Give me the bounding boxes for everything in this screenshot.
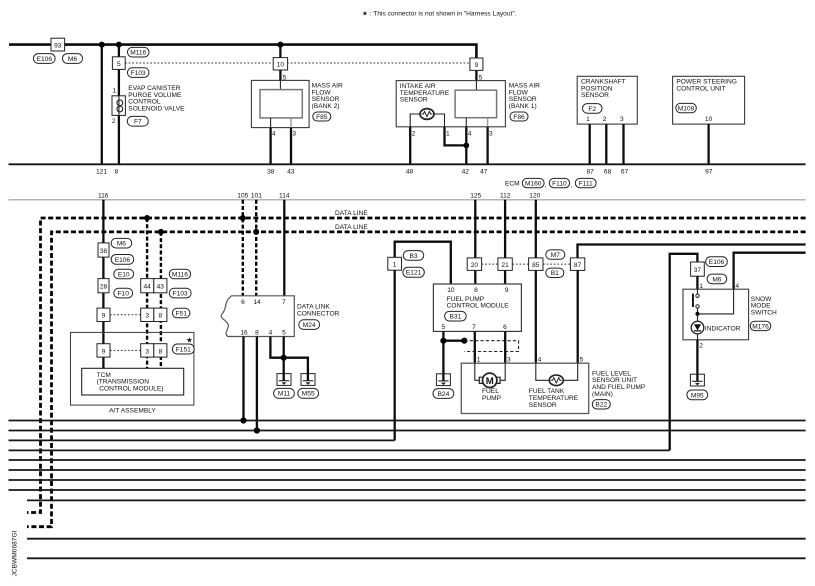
wire: shield drain link xyxy=(443,340,464,342)
mass air flow sensor (bank 2) inner element xyxy=(260,90,302,118)
wire: snow mode switch feed L (vertical to bottom bus) xyxy=(670,254,698,451)
wire: FPCM pin 7 to fuel pump pin 1 xyxy=(474,331,476,363)
svg-text:SOLENOID VALVE: SOLENOID VALVE xyxy=(128,105,185,112)
wire: dotted link 9 to 3 (F151 row) xyxy=(110,349,141,351)
wire: fuel tank temp sensor pin 4 internal xyxy=(536,363,550,380)
wire: connector 37 to snow mode switch pin 1 xyxy=(696,276,698,289)
connector oval M95 xyxy=(687,390,708,400)
connector oval M108 xyxy=(676,103,697,112)
svg-text:M6: M6 xyxy=(68,56,77,63)
svg-text:3: 3 xyxy=(507,356,511,363)
svg-text:JCBWM0687GI: JCBWM0687GI xyxy=(11,530,18,576)
node: shield drain junction left xyxy=(440,338,446,344)
svg-text:4: 4 xyxy=(468,130,472,137)
connector 20 xyxy=(467,258,481,271)
svg-text:116: 116 xyxy=(98,192,109,199)
svg-text:14: 14 xyxy=(253,299,261,306)
switch contact (snow mode switch) xyxy=(692,289,699,314)
svg-text:8: 8 xyxy=(115,169,119,176)
svg-text:9: 9 xyxy=(102,313,106,320)
ground symbol M95 xyxy=(690,374,704,386)
svg-text:112: 112 xyxy=(500,192,511,199)
mass air flow sensor (bank 2) outer box xyxy=(251,80,309,127)
svg-text:M108: M108 xyxy=(678,106,695,113)
power steering control unit box xyxy=(673,76,745,124)
svg-text:B22: B22 xyxy=(595,402,607,409)
svg-text:ECM: ECM xyxy=(505,180,520,187)
svg-text:1: 1 xyxy=(393,262,397,269)
wire: pin5 inside MAF bank1 xyxy=(475,81,477,91)
connector oval E106 xyxy=(34,54,56,64)
TCM (transmission control module) box xyxy=(82,368,184,395)
connector 8 (F51 row) xyxy=(154,308,167,321)
svg-text:10: 10 xyxy=(277,62,285,69)
svg-text:105: 105 xyxy=(237,192,248,199)
wire: ECM 114 to DLC pin 7 xyxy=(283,200,285,296)
svg-text:48: 48 xyxy=(406,169,414,176)
wire: FPCM pin10 to connector B3 (up-left-down) xyxy=(395,242,451,284)
wire: MAF bank2 power drop from bus xyxy=(279,45,281,58)
svg-text:120: 120 xyxy=(529,192,540,199)
indicator LED (snow mode switch) xyxy=(691,321,704,334)
wire: ECM top bus (horizontal) xyxy=(9,163,806,165)
wire: DLC pin 5 down to grounds xyxy=(283,337,285,375)
svg-text:F103: F103 xyxy=(131,70,146,77)
svg-text:9: 9 xyxy=(475,62,479,69)
svg-text:6: 6 xyxy=(503,324,507,331)
svg-text:F111: F111 xyxy=(579,180,593,187)
connector 28 (E10/F10) xyxy=(98,279,109,293)
svg-text:9: 9 xyxy=(505,287,509,294)
svg-text:E106: E106 xyxy=(115,257,131,264)
wire: indicator to pin 2 xyxy=(697,334,699,340)
wire: DLC pin 4 to ground junction xyxy=(270,337,283,358)
svg-text:16: 16 xyxy=(240,330,248,337)
wire: MAF bank1 pin 3 (inside, gray) xyxy=(487,118,489,127)
connector oval M116 (TCM column) xyxy=(169,269,190,279)
label: FUEL TANK TEMPERATURE SENSOR xyxy=(529,388,579,409)
svg-text:8: 8 xyxy=(255,330,259,337)
thermistor: intake air temperature sensing element xyxy=(420,109,434,120)
connector oval B24 xyxy=(433,389,454,399)
wire: snow mode switch pin 4 up and right to page edge xyxy=(734,253,806,290)
svg-text:F2: F2 xyxy=(588,106,596,113)
wire: connector 87 down to fuel level sensor pin 5 xyxy=(577,270,579,363)
node: junction pin1/pin4 xyxy=(463,143,469,149)
connector oval E121 xyxy=(403,267,424,277)
connector 9 (F151 row) xyxy=(97,344,110,357)
svg-text:M116: M116 xyxy=(130,50,146,57)
svg-text:8: 8 xyxy=(158,313,162,320)
svg-text:F103: F103 xyxy=(173,291,188,298)
wire: fuel pump pin 3 internal xyxy=(501,363,505,380)
connector oval E106 (snow switch) xyxy=(706,257,728,267)
svg-text:114: 114 xyxy=(279,192,290,199)
svg-text:85: 85 xyxy=(532,262,540,269)
svg-text:7: 7 xyxy=(282,299,286,306)
wire: EVAP solenoid feed (vertical) xyxy=(118,45,120,165)
connector 85 xyxy=(529,258,543,271)
svg-text:3: 3 xyxy=(292,130,296,137)
node: junction on bus at x=118.9 xyxy=(116,42,122,48)
svg-text:★ : This connector is not show: ★ : This connector is not shown in "Harn… xyxy=(362,10,517,18)
svg-text:M11: M11 xyxy=(278,391,291,398)
wire: ECM 125 to FPCM pin 8 xyxy=(474,200,476,284)
svg-text:DATA LINE: DATA LINE xyxy=(335,224,368,231)
connector oval F103 (TCM column) xyxy=(169,288,191,298)
svg-text:1: 1 xyxy=(446,130,450,137)
connector oval F10 xyxy=(114,288,133,298)
svg-text:2: 2 xyxy=(112,118,116,125)
svg-text:SWITCH: SWITCH xyxy=(751,309,777,316)
svg-text:10: 10 xyxy=(447,287,455,294)
connector 1 (B3/E121) xyxy=(388,257,402,270)
wire: connector 10 to MAF bank2 xyxy=(279,70,281,80)
wire: CKP pin1 to ECM 87 xyxy=(589,124,591,164)
wire: IAT pin 2 to ECM 48 xyxy=(409,127,411,165)
svg-text:38: 38 xyxy=(100,248,108,255)
node: switch/indicator junction xyxy=(695,312,699,316)
svg-text:M116: M116 xyxy=(172,271,188,278)
svg-text:10: 10 xyxy=(705,116,713,123)
svg-text:SENSOR: SENSOR xyxy=(581,92,609,99)
svg-text:,: , xyxy=(570,182,572,189)
wire: CKP pin3 to ECM 67 xyxy=(622,124,624,164)
svg-text:2: 2 xyxy=(699,343,703,350)
wire: bottom bus 3 (ends at B3 drop) xyxy=(9,439,395,441)
wire: bottom bus 8 xyxy=(9,489,806,491)
connector 5 (M116/F103) xyxy=(112,57,125,70)
svg-text:B3: B3 xyxy=(409,253,417,260)
wire: MAF bank2 pin 4 to ECM 38 xyxy=(269,128,271,165)
node labels: ECM pin numbers row 1 xyxy=(96,169,713,176)
node: junction on bus at x=101.8 xyxy=(99,42,105,48)
svg-text:F85: F85 xyxy=(316,114,328,121)
svg-text:F51: F51 xyxy=(176,310,188,317)
wire: MAF bank2 pin 3 to ECM 43 xyxy=(290,128,292,165)
svg-text:F86: F86 xyxy=(513,114,525,121)
node: shield drain junction right xyxy=(461,338,467,344)
svg-text:6: 6 xyxy=(241,299,245,306)
connector oval B3 xyxy=(403,251,423,261)
connector 21 xyxy=(498,258,512,271)
svg-text:8: 8 xyxy=(158,348,162,355)
svg-text:8: 8 xyxy=(474,287,478,294)
connector oval M7 xyxy=(546,250,565,259)
connector oval F151 xyxy=(172,344,194,354)
svg-text:3: 3 xyxy=(145,313,149,320)
svg-text:121: 121 xyxy=(96,169,107,176)
connector 10 xyxy=(273,58,287,70)
thermistor: fuel tank temperature sensor xyxy=(549,375,563,386)
connector 8 (F151 row) xyxy=(154,344,167,357)
wire: MAF bank2 pin 4 (inside) xyxy=(270,118,272,128)
svg-text:CONNECTOR: CONNECTOR xyxy=(297,310,340,317)
wire: FPCM pin 6 to fuel pump pin 3 xyxy=(504,331,506,363)
connector oval F51 xyxy=(172,308,190,318)
node: junction DATA LINE 1 / DLC xyxy=(240,215,246,221)
svg-text:B31: B31 xyxy=(450,314,462,321)
wire: pin 4 internal down-left to junction xyxy=(698,289,734,314)
svg-text:5: 5 xyxy=(580,356,584,363)
svg-text:A/T ASSEMBLY: A/T ASSEMBLY xyxy=(109,407,156,414)
svg-text:3: 3 xyxy=(145,348,149,355)
wire: ECM 105 dashed drop to DLC pin 6 xyxy=(242,200,244,296)
node: junction DATA LINE 1 / TCM CAN-H xyxy=(144,215,150,221)
wire: fuel tank temp sensor pin 5 internal xyxy=(563,363,577,380)
wire: bottom bus 6 xyxy=(9,469,806,471)
connector oval M6 (TCM column) xyxy=(111,238,132,248)
connector oval F103 xyxy=(128,68,150,78)
connector oval M6 xyxy=(63,54,83,64)
label: MASS AIR FLOW SENSOR (BANK 2) xyxy=(312,83,343,110)
connector oval B22 xyxy=(592,400,610,409)
svg-text:44: 44 xyxy=(144,284,152,291)
svg-text:5: 5 xyxy=(282,330,286,337)
svg-text:37: 37 xyxy=(694,267,702,274)
svg-text:M95: M95 xyxy=(691,392,704,399)
svg-text:PUMP: PUMP xyxy=(482,395,502,402)
svg-text:3: 3 xyxy=(620,116,624,123)
connector oval F7 xyxy=(127,116,148,126)
wire: bottom bus 2 xyxy=(9,430,806,432)
connector oval M55 xyxy=(298,388,319,398)
mass air flow sensor (bank 1) inner element xyxy=(455,90,497,118)
connector 44 xyxy=(141,279,154,293)
svg-text:M24: M24 xyxy=(303,322,316,329)
wire: dotted link 85-87 xyxy=(543,263,570,265)
intake air temperature sensor / MAF bank1 outer box xyxy=(396,81,505,127)
svg-text:INDICATOR: INDICATOR xyxy=(705,325,741,332)
ground symbol M55 xyxy=(301,374,315,386)
label: FUEL LEVEL SENSOR UNIT AND FUEL PUMP (MAIN) xyxy=(592,370,646,397)
motor symbol: fuel pump xyxy=(479,373,500,387)
wire: junction to indicator xyxy=(697,314,699,322)
svg-text:7: 7 xyxy=(472,324,476,331)
node: ground junction xyxy=(281,355,287,361)
label: DATA LINK CONNECTOR xyxy=(297,304,340,318)
svg-text:1: 1 xyxy=(586,116,590,123)
svg-text:E10: E10 xyxy=(118,271,130,278)
wire: pin5 inside MAF bank2 xyxy=(279,80,281,89)
wire: bottom bus 10 xyxy=(27,538,806,540)
connector oval F85 xyxy=(313,112,331,121)
node: junction DATA LINE 2 / DLC xyxy=(253,229,259,235)
svg-text:38: 38 xyxy=(267,169,275,176)
connector 3 (F151 row) xyxy=(141,344,154,357)
svg-text:47: 47 xyxy=(480,169,488,176)
wire: ECM 101 dashed drop to DLC pin 14 xyxy=(255,200,257,296)
connector oval B31 xyxy=(445,311,467,321)
wire: dashed harness link from connector 5 to connector 9 xyxy=(125,62,470,64)
snow mode switch box xyxy=(683,289,749,340)
svg-text:CONTROL UNIT: CONTROL UNIT xyxy=(676,85,725,92)
svg-text:CONTROL MODULE: CONTROL MODULE xyxy=(447,303,510,310)
wire: MAF bank1 pin 4 (inside) xyxy=(465,118,467,127)
svg-text:M: M xyxy=(486,376,494,387)
wire: IAT pin 1 joins pin 4 wire xyxy=(445,127,467,146)
svg-text:E106: E106 xyxy=(37,56,53,63)
wire: DLC pin 16 down to bus xyxy=(242,337,244,421)
svg-text:SENSOR: SENSOR xyxy=(529,402,557,409)
svg-text:SENSOR: SENSOR xyxy=(400,97,428,104)
wire: connector 9 to MAF bank1 xyxy=(475,70,477,80)
svg-text:97: 97 xyxy=(705,169,713,176)
svg-text:(BANK 1): (BANK 1) xyxy=(509,103,537,110)
svg-text:2: 2 xyxy=(412,130,416,137)
wire: bottom bus 4 (ends at snow switch drop) xyxy=(9,449,670,451)
svg-text:101: 101 xyxy=(251,192,262,199)
svg-text:87: 87 xyxy=(587,169,595,176)
wire: FPCM pin 5 to ground B24 xyxy=(442,331,444,373)
wire: TCM CAN-H dashed drop xyxy=(146,218,148,368)
connector 3 (F51 row) xyxy=(141,308,154,321)
wire: ECM 120 to fuel level sensor pin 4 xyxy=(535,200,537,363)
wire: snow switch pin 2 to ground M95 xyxy=(696,340,698,374)
connector oval M176 xyxy=(750,321,771,330)
svg-text:1: 1 xyxy=(477,356,481,363)
wire: TCM CAN-L dashed drop xyxy=(160,232,162,368)
wire: bottom bus 1 xyxy=(9,420,806,422)
svg-text:CONTROL MODULE): CONTROL MODULE) xyxy=(99,385,163,392)
wire: DATA LINE 2 (CAN-L, dashed) with left drop and bottom hook xyxy=(27,232,806,527)
svg-text:67: 67 xyxy=(621,169,629,176)
wire: MAF bank2 pin 3 (inside, gray) xyxy=(290,118,292,128)
svg-text:5: 5 xyxy=(117,61,121,68)
connector oval E106 (TCM column) xyxy=(111,255,134,265)
label: ECM with connector ovals M160 F110 F111 xyxy=(505,178,596,189)
connector oval F2 xyxy=(583,104,603,114)
connector oval F86 xyxy=(510,112,528,121)
wire: thermistor left to pin 2 xyxy=(410,114,420,127)
wire: PSCU pin10 to ECM 97 xyxy=(707,124,709,164)
wire: bottom bus 7 xyxy=(9,479,806,481)
wire: fuel pump pin 1 internal xyxy=(475,363,479,380)
svg-text:F7: F7 xyxy=(134,119,142,126)
svg-text:E106: E106 xyxy=(709,259,725,266)
svg-text:4: 4 xyxy=(269,330,273,337)
wire: connector B3 down to bottom bus xyxy=(394,270,396,440)
svg-text:1: 1 xyxy=(112,87,116,94)
label: FUEL PUMP xyxy=(482,388,502,402)
wire: CKP pin2 to ECM 68 xyxy=(605,124,607,164)
svg-text:3: 3 xyxy=(489,130,493,137)
fuel pump control module box xyxy=(433,284,521,331)
node labels: ECM pin numbers row 2 xyxy=(98,192,541,199)
svg-text:68: 68 xyxy=(604,169,612,176)
svg-text:★: ★ xyxy=(186,336,193,345)
shield (dashed) around fuel pump wires xyxy=(464,341,518,352)
connector oval M116 xyxy=(128,47,150,57)
label: INTAKE AIR TEMPERATURE SENSOR xyxy=(400,83,450,104)
svg-text:4: 4 xyxy=(272,130,276,137)
ground symbol M11 xyxy=(277,374,291,386)
svg-text:M160: M160 xyxy=(525,180,542,187)
svg-text:(MAIN): (MAIN) xyxy=(592,391,613,398)
svg-text:F151: F151 xyxy=(176,346,191,353)
svg-text:B24: B24 xyxy=(438,391,450,398)
svg-text:5: 5 xyxy=(441,324,445,331)
wire: main power bus (top horizontal thick) xyxy=(9,45,476,58)
connector oval M11 xyxy=(274,388,295,398)
connector 93 (E106/M6) xyxy=(51,38,65,51)
svg-text:(BANK 2): (BANK 2) xyxy=(312,103,340,110)
connector oval E10 xyxy=(114,269,134,279)
wire: bottom bus 9 xyxy=(27,499,806,501)
svg-text:B1: B1 xyxy=(551,270,559,277)
wire: ECM 112 to FPCM pin 9 xyxy=(504,200,506,284)
connector 9 (F51 row) xyxy=(97,308,110,321)
svg-text:43: 43 xyxy=(287,169,295,176)
wire: MAF bank1 pin 3 to ECM 47 xyxy=(486,127,488,165)
svg-text:F110: F110 xyxy=(552,180,567,187)
svg-text:42: 42 xyxy=(462,169,470,176)
wire: bottom bus 5 xyxy=(9,459,806,461)
svg-text:M7: M7 xyxy=(551,252,560,259)
svg-text:E121: E121 xyxy=(406,270,422,277)
wire: dotted link 9 to 3 (F51 row) xyxy=(110,314,141,316)
solenoid coil L1: EVAP canister purge volume control solenoid valve xyxy=(112,96,125,116)
connector 38 (M6/E106) xyxy=(98,243,109,257)
wire: connector 87 up and right to page edge xyxy=(578,245,806,258)
wire: branch to ground M55 xyxy=(284,358,308,375)
svg-text:,: , xyxy=(545,182,547,189)
crankshaft position sensor box xyxy=(577,76,637,124)
svg-text:87: 87 xyxy=(574,262,582,269)
connector oval M6 (snow switch) xyxy=(707,274,727,284)
wire: bottom bus 11 xyxy=(27,557,806,559)
svg-text:M55: M55 xyxy=(302,391,315,398)
svg-text:43: 43 xyxy=(157,284,165,291)
svg-text:21: 21 xyxy=(501,262,509,269)
wire: DATA LINE 1 (CAN-H, dashed) with left drop and bottom hook xyxy=(27,218,806,513)
connector 87 xyxy=(570,258,584,271)
node: junction DATA LINE 2 / TCM CAN-L xyxy=(158,229,164,235)
svg-text:F10: F10 xyxy=(118,291,130,298)
wire: thermistor right to pin 1 xyxy=(434,114,445,127)
connector oval M24 xyxy=(299,320,320,330)
ground symbol B24 xyxy=(436,374,450,386)
svg-text:9: 9 xyxy=(102,348,106,355)
svg-text:4: 4 xyxy=(538,356,542,363)
wire: MAF bank1 pin 4 to ECM 42 xyxy=(465,127,467,165)
label: SNOW MODE SWITCH xyxy=(751,296,777,317)
wire: DLC pin 8 down to bus xyxy=(256,337,258,431)
connector 43 xyxy=(154,279,167,293)
wire: dotted link 21-85 xyxy=(512,263,528,265)
wire: ECM pin 121 feed (vertical) xyxy=(101,45,103,165)
svg-text:93: 93 xyxy=(54,42,62,49)
wire: dotted link 20-21 xyxy=(482,263,498,265)
wire: ECM bottom bus (gray horizontal) xyxy=(9,199,806,201)
connector 37 (E106/M6) xyxy=(691,262,705,276)
node: junction on bus at x=280.4 xyxy=(277,42,283,48)
connector oval B1 xyxy=(546,268,564,277)
fuel level sensor unit and fuel pump (main) box xyxy=(461,363,588,413)
svg-text:2: 2 xyxy=(603,116,607,123)
A/T assembly outline box xyxy=(71,332,194,405)
svg-text:M6: M6 xyxy=(712,276,721,283)
label: MASS AIR FLOW SENSOR (BANK 1) xyxy=(509,83,540,110)
svg-text:20: 20 xyxy=(471,262,479,269)
svg-text:M6: M6 xyxy=(117,241,126,248)
svg-text:125: 125 xyxy=(470,192,481,199)
svg-text:DATA LINE: DATA LINE xyxy=(335,210,368,217)
svg-text:28: 28 xyxy=(100,284,108,291)
svg-text:M176: M176 xyxy=(752,323,769,330)
connector 9 (top right of MAF bank1) xyxy=(470,58,483,70)
data link connector M24 (wavy left edge) xyxy=(221,296,294,337)
